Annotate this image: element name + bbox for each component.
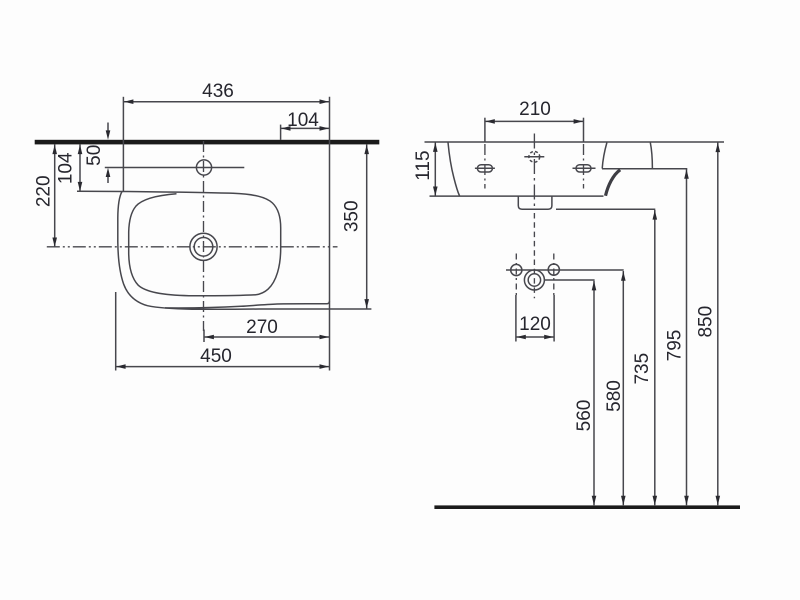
svg-text:115: 115 — [413, 150, 434, 180]
dimension 115 line — [434, 142, 436, 196]
dimension 735 line — [654, 210, 656, 505]
svg-text:270: 270 — [246, 317, 278, 338]
dimension 210 line — [485, 120, 584, 122]
basin front apron edge (top view) — [165, 301, 329, 308]
svg-text:350: 350 — [342, 200, 363, 232]
extension line 120 right — [553, 295, 555, 342]
extension line drain centre to 270 — [203, 330, 205, 343]
trap bottom extension line — [556, 208, 655, 210]
svg-text:120: 120 — [519, 314, 551, 335]
svg-text:450: 450 — [200, 346, 232, 367]
basin bottom line (front view) — [430, 195, 604, 197]
bowl transition curve (front view) — [606, 170, 621, 196]
svg-text:104: 104 — [287, 110, 319, 131]
centre line left fixing hole — [484, 144, 486, 189]
svg-text:210: 210 — [519, 99, 551, 120]
dimension 436 line — [123, 101, 329, 103]
basin vertical centre line (top view) — [203, 141, 205, 331]
shelf right end cap (front view) — [650, 143, 652, 169]
drain outlet outer circle — [524, 270, 544, 290]
basin top edge line (front view) — [425, 141, 725, 143]
centre line left supply — [515, 254, 517, 298]
dimension 795 line — [686, 169, 688, 505]
supply connection line — [506, 269, 624, 271]
centre line right fixing hole — [583, 144, 585, 189]
dimension 50 arrows — [107, 123, 109, 136]
bowl inner outline (top view) — [129, 194, 256, 296]
right fixing slot (front view) — [573, 167, 596, 169]
svg-text:220: 220 — [34, 175, 55, 207]
dimension 120 line — [516, 336, 554, 338]
faucet hole (top view) — [196, 160, 211, 175]
shelf underside line (front view) — [602, 168, 687, 170]
dimension 450 line — [116, 366, 330, 368]
dimension 104 left line — [79, 144, 81, 191]
dimension 220 line — [54, 144, 56, 247]
svg-text:735: 735 — [632, 353, 653, 385]
svg-text:560: 560 — [574, 400, 595, 432]
extension line basin left edge to 450 — [115, 292, 117, 371]
svg-text:50: 50 — [84, 145, 105, 166]
drain outer circle (top view) — [190, 233, 217, 260]
drain horizontal centre line (top view) — [47, 246, 338, 248]
dimension 104 top line — [281, 127, 330, 129]
wall line (top view, thick) — [35, 140, 380, 145]
dimension 560 line — [593, 281, 595, 506]
svg-text:850: 850 — [696, 306, 717, 338]
svg-text:104: 104 — [56, 152, 77, 184]
right supply circle — [548, 264, 559, 275]
floor line (thick) — [434, 505, 740, 509]
extension line left fixing hole — [484, 118, 486, 142]
extension line right fixing hole — [583, 118, 585, 142]
extension line 120 left — [515, 295, 517, 342]
svg-text:795: 795 — [665, 330, 686, 362]
bowl/shelf crease line (front view) — [602, 143, 607, 169]
basin centre line (front view) — [533, 134, 535, 210]
centre line right supply — [553, 254, 555, 298]
dimension 270 line — [204, 336, 330, 338]
trap cover outline (front view) — [518, 196, 552, 209]
extension line right edge of basin — [329, 97, 331, 371]
basin front silhouette (top view) — [118, 192, 372, 310]
left supply circle — [511, 264, 522, 275]
drain outlet inner circle — [528, 274, 540, 286]
drain connection line — [545, 279, 595, 281]
dimension 350 line — [366, 144, 368, 308]
bowl outer rim outline (top view) — [77, 191, 281, 294]
overflow hole (front view) — [524, 156, 544, 158]
svg-text:436: 436 — [202, 81, 234, 102]
dimension 580 line — [622, 271, 624, 505]
left fixing slot (front view) — [475, 167, 495, 169]
basin body outline (front view) — [448, 142, 460, 196]
extension line bowl right tangent — [280, 125, 282, 140]
extension line left of 436 — [122, 97, 124, 191]
dimension 850 line — [717, 142, 719, 505]
drain inner circle (top view) — [194, 238, 213, 257]
faucet hole centre line (horizontal) — [105, 167, 245, 169]
svg-text:580: 580 — [604, 380, 625, 412]
